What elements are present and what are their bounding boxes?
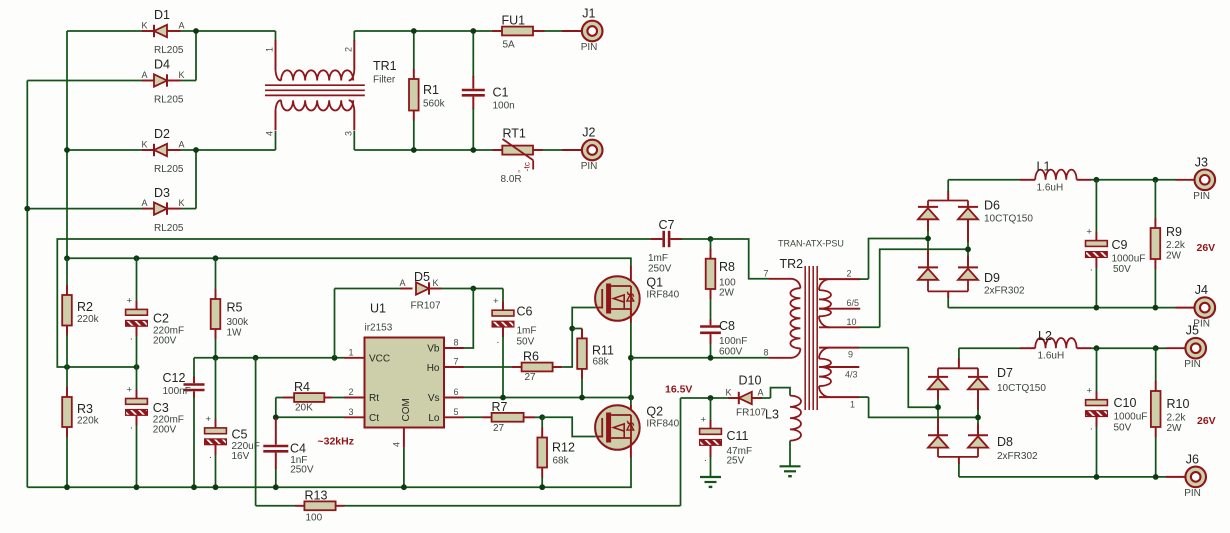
svg-text:C12: C12 xyxy=(163,371,186,385)
wire L1 row xyxy=(948,179,1020,181)
capacitor C2 xyxy=(126,258,185,367)
svg-text:R4: R4 xyxy=(294,380,310,394)
svg-text:COM: COM xyxy=(401,398,412,421)
wire R13 row xyxy=(256,505,296,507)
svg-text:1W: 1W xyxy=(227,328,243,339)
svg-text:R1: R1 xyxy=(423,83,439,97)
svg-text:L1: L1 xyxy=(1037,160,1051,174)
wire R4 corner to Ct row xyxy=(275,398,277,418)
diode pair D9 xyxy=(918,239,1025,297)
svg-text:R10: R10 xyxy=(1167,397,1190,411)
svg-text:2: 2 xyxy=(343,47,353,52)
connector J2 xyxy=(582,140,603,161)
svg-text:K: K xyxy=(142,21,148,31)
wire D3 row left xyxy=(27,208,142,210)
svg-text:PIN: PIN xyxy=(1193,191,1210,202)
resistor R6 xyxy=(512,350,563,384)
svg-text:.: . xyxy=(704,453,707,464)
svg-text:C9: C9 xyxy=(1112,238,1128,252)
svg-text:J2: J2 xyxy=(582,126,595,140)
svg-text:10CTQ150: 10CTQ150 xyxy=(997,383,1046,394)
svg-text:600V: 600V xyxy=(719,347,743,358)
svg-text:68k: 68k xyxy=(593,357,610,368)
svg-text:+: + xyxy=(1087,386,1093,397)
svg-text:16.5V: 16.5V xyxy=(665,383,692,395)
svg-text:TR1: TR1 xyxy=(373,59,397,73)
svg-text:5: 5 xyxy=(454,407,459,417)
node rail2 dots xyxy=(64,255,70,261)
svg-text:J5: J5 xyxy=(1186,324,1199,338)
svg-text:.: . xyxy=(497,335,500,346)
svg-text:R8: R8 xyxy=(719,260,735,274)
svg-text:6: 6 xyxy=(454,387,459,397)
svg-text:PIN: PIN xyxy=(581,42,598,53)
connector J1 xyxy=(582,21,603,42)
svg-text:R12: R12 xyxy=(552,441,575,455)
svg-text:R11: R11 xyxy=(592,344,614,358)
svg-text:K: K xyxy=(726,388,732,398)
capacitor C11 xyxy=(700,398,752,477)
resistor R8 xyxy=(706,239,736,320)
wire D10 to L3 jog xyxy=(771,388,791,398)
svg-text:Ho: Ho xyxy=(427,363,440,374)
node J4 row dots xyxy=(1094,305,1100,311)
svg-text:FU1: FU1 xyxy=(502,14,526,28)
wire top row D1 left xyxy=(67,30,143,32)
transformer TR2 xyxy=(764,239,844,411)
svg-text:+: + xyxy=(127,385,133,396)
svg-text:D5: D5 xyxy=(414,270,430,284)
svg-text:8: 8 xyxy=(454,338,459,348)
svg-text:Vb: Vb xyxy=(427,344,440,355)
svg-text:Q1: Q1 xyxy=(646,276,663,290)
wire HV rail1 big loop xyxy=(57,239,650,367)
capacitor C3 xyxy=(126,367,184,487)
capacitor C4 xyxy=(263,418,314,487)
svg-text:27: 27 xyxy=(525,372,537,383)
svg-text:Filter: Filter xyxy=(373,75,396,86)
svg-text:RL205: RL205 xyxy=(154,45,184,56)
svg-text:25V: 25V xyxy=(727,456,745,467)
svg-text:R9: R9 xyxy=(1166,225,1182,239)
svg-text:FR107: FR107 xyxy=(736,408,766,419)
resistor R1 xyxy=(409,31,446,150)
svg-text:1: 1 xyxy=(349,347,354,357)
svg-text:ir2153: ir2153 xyxy=(365,323,393,334)
wire rail2 to Q1 drain xyxy=(67,258,631,266)
svg-text:D7: D7 xyxy=(997,366,1013,380)
wire L2 to J5 xyxy=(1091,347,1167,349)
svg-text:.: . xyxy=(209,450,212,461)
svg-text:1mF: 1mF xyxy=(648,253,668,264)
svg-text:C8: C8 xyxy=(719,319,735,333)
svg-text:2: 2 xyxy=(349,387,354,397)
svg-text:1000uF: 1000uF xyxy=(1114,412,1148,423)
svg-text:8: 8 xyxy=(764,347,769,357)
diode D2 xyxy=(142,127,276,175)
transformer TR2 secondary bottom xyxy=(819,348,908,410)
svg-text:D6: D6 xyxy=(984,199,1000,213)
inductor L2 xyxy=(1020,329,1091,362)
transistor Q2 xyxy=(595,405,680,458)
svg-text:C1: C1 xyxy=(493,86,509,100)
svg-text:K: K xyxy=(179,198,185,208)
wire L2 row xyxy=(959,347,1021,349)
svg-text:A: A xyxy=(758,388,764,398)
wire bridge bottom output xyxy=(947,291,949,298)
diode D1 xyxy=(142,8,276,56)
svg-text:+: + xyxy=(1086,227,1092,238)
transistor Q1 xyxy=(595,266,680,323)
capacitor C5 xyxy=(205,358,260,487)
inductor L1 xyxy=(1020,160,1091,194)
wire VCC row xyxy=(194,357,344,359)
svg-text:C4: C4 xyxy=(290,442,306,456)
wire D2 row xyxy=(67,149,143,151)
node half-bridge mid dots xyxy=(628,355,634,361)
svg-text:1000uF: 1000uF xyxy=(1112,254,1146,265)
svg-text:R5: R5 xyxy=(227,301,243,315)
node L1 row dots xyxy=(1094,177,1100,183)
svg-text:J1: J1 xyxy=(582,7,595,21)
svg-text:250V: 250V xyxy=(290,465,314,476)
svg-text:.: . xyxy=(130,421,133,432)
wire COM to bottom rail xyxy=(403,448,405,488)
svg-text:J4: J4 xyxy=(1195,283,1208,297)
svg-text:2xFR302: 2xFR302 xyxy=(997,451,1038,462)
svg-text:4/3: 4/3 xyxy=(845,370,858,380)
svg-text:C5: C5 xyxy=(232,428,248,442)
svg-text:2W: 2W xyxy=(719,288,735,299)
resistor R11 xyxy=(577,329,614,398)
svg-text:9: 9 xyxy=(848,350,853,360)
wire Lo row to R7 xyxy=(464,416,483,418)
wire Vs to TR2 pin8 row xyxy=(631,357,769,359)
capacitor C12 xyxy=(163,358,205,487)
svg-text:5A: 5A xyxy=(503,40,516,51)
svg-text:1: 1 xyxy=(265,47,275,52)
diode D5 xyxy=(335,270,504,312)
svg-text:°: ° xyxy=(518,169,521,178)
node R1 junctions xyxy=(411,28,417,34)
svg-text:RL205: RL205 xyxy=(154,95,184,106)
svg-text:C7: C7 xyxy=(659,218,675,232)
svg-text:27: 27 xyxy=(493,423,505,434)
wire to TR2 pin7 xyxy=(711,239,770,279)
op-amp U1 ir2153 xyxy=(344,302,464,448)
wire pin10 to bridge xyxy=(880,249,968,327)
svg-text:+: + xyxy=(127,295,133,306)
wire Vb bootstrap vertical xyxy=(464,289,474,349)
wire Ho row to R6 xyxy=(464,366,512,368)
svg-text:220k: 220k xyxy=(77,314,100,325)
svg-text:D9: D9 xyxy=(984,271,1000,285)
wire J4 row xyxy=(948,307,1175,309)
svg-text:100: 100 xyxy=(306,512,323,523)
svg-text:R13: R13 xyxy=(305,488,328,502)
svg-text:A: A xyxy=(179,21,185,31)
connector J5 xyxy=(1185,338,1206,359)
wire R6 to Q1 gate xyxy=(562,308,596,368)
svg-text:C2: C2 xyxy=(153,312,169,326)
wire R13 feed vertical x255.6 xyxy=(255,358,257,506)
node L2 row dots xyxy=(1094,345,1100,351)
svg-text:100nF: 100nF xyxy=(163,386,191,397)
svg-text:-tc: -tc xyxy=(522,161,532,171)
svg-text:16V: 16V xyxy=(232,451,250,462)
svg-text:10CTQ150: 10CTQ150 xyxy=(984,213,1033,224)
transformer TR1 xyxy=(265,31,397,150)
svg-text:1: 1 xyxy=(850,399,855,409)
svg-text:D4: D4 xyxy=(154,58,170,72)
svg-text:50V: 50V xyxy=(517,337,535,348)
diode pair D7 xyxy=(928,366,1046,417)
svg-text:R2: R2 xyxy=(77,300,93,314)
wire Ct row xyxy=(276,416,344,418)
inductor L3 xyxy=(765,396,801,441)
svg-text:Lo: Lo xyxy=(428,413,440,424)
node bridge bottom dots xyxy=(935,404,941,410)
svg-text:D2: D2 xyxy=(154,127,170,141)
wire D4 row left xyxy=(27,80,142,82)
svg-text:A: A xyxy=(179,140,185,150)
node bridge top dots xyxy=(925,236,931,242)
svg-text:C3: C3 xyxy=(153,401,169,415)
diode D10 xyxy=(726,374,771,419)
svg-text:1mF: 1mF xyxy=(517,326,537,337)
node 16.5V dot xyxy=(708,395,714,401)
svg-text:+: + xyxy=(206,414,212,425)
svg-text:100n: 100n xyxy=(493,101,515,112)
svg-text:D10: D10 xyxy=(739,374,762,388)
wire R11 top tap xyxy=(572,328,582,330)
wire pin9 to bridge xyxy=(908,348,938,408)
svg-text:~32kHz: ~32kHz xyxy=(318,436,354,448)
connector J6 xyxy=(1185,467,1206,488)
node VCC row dots xyxy=(213,355,219,361)
wire R7 to Q2 gate xyxy=(542,417,596,436)
wire left rail x27 D4-D3-bottom xyxy=(26,81,28,488)
connector J4 xyxy=(1195,297,1216,318)
svg-text:Q2: Q2 xyxy=(646,405,663,419)
svg-text:D8: D8 xyxy=(997,435,1013,449)
wire bridge2 bottom output xyxy=(958,457,960,464)
svg-text:7: 7 xyxy=(764,268,769,278)
svg-text:L3: L3 xyxy=(765,408,779,422)
resistor R3 xyxy=(62,367,99,487)
svg-text:Vs: Vs xyxy=(428,393,440,404)
svg-text:PIN: PIN xyxy=(1184,488,1201,499)
svg-text:Ct: Ct xyxy=(369,413,379,424)
svg-text:20K: 20K xyxy=(295,403,313,414)
svg-text:J3: J3 xyxy=(1195,155,1208,169)
svg-text:+: + xyxy=(493,296,499,307)
svg-text:560k: 560k xyxy=(423,99,446,110)
wire left rail x67 D1-D2-R2 column top xyxy=(66,31,68,258)
svg-text:2.2k: 2.2k xyxy=(1166,240,1186,251)
svg-text:RL205: RL205 xyxy=(154,223,184,234)
svg-text:50V: 50V xyxy=(1113,264,1131,275)
capacitor C6 xyxy=(492,289,536,398)
wire L3 to ground xyxy=(789,441,791,467)
svg-text:L2: L2 xyxy=(1038,329,1052,343)
svg-text:R3: R3 xyxy=(77,402,93,416)
svg-text:A: A xyxy=(142,198,148,208)
resistor R5 xyxy=(211,258,249,358)
svg-text:2xFR302: 2xFR302 xyxy=(984,285,1025,296)
wire D2-D3 junction vertical x196 xyxy=(195,150,197,209)
node C7-R8 junction xyxy=(708,236,714,242)
wire bridge2 top output xyxy=(958,358,960,368)
svg-text:K: K xyxy=(179,70,185,80)
resistor R2 xyxy=(62,258,99,367)
svg-text:PIN: PIN xyxy=(581,161,598,172)
svg-text:TR2: TR2 xyxy=(780,257,804,271)
svg-text:4: 4 xyxy=(392,442,402,447)
svg-text:A: A xyxy=(400,278,406,288)
svg-text:RL205: RL205 xyxy=(154,164,184,175)
svg-text:4: 4 xyxy=(265,131,275,136)
wire J6 row xyxy=(959,476,1167,478)
svg-text:FR107: FR107 xyxy=(411,301,441,312)
svg-text:200V: 200V xyxy=(153,336,177,347)
svg-text:+: + xyxy=(701,415,707,426)
transformer TR2 secondary top xyxy=(819,269,880,328)
resistor R7 xyxy=(482,400,542,434)
svg-text:.: . xyxy=(130,331,133,342)
svg-text:26V: 26V xyxy=(1197,415,1216,427)
svg-text:C10: C10 xyxy=(1114,396,1137,410)
resistor R12 xyxy=(537,417,575,487)
thermistor RT1 xyxy=(493,127,583,186)
node D5-Vb junction xyxy=(470,286,476,292)
svg-text:R7: R7 xyxy=(492,400,508,414)
capacitor C10 xyxy=(1086,348,1148,477)
svg-text:1.6uH: 1.6uH xyxy=(1037,182,1064,193)
svg-text:100nF: 100nF xyxy=(719,336,747,347)
svg-text:C6: C6 xyxy=(517,305,533,319)
svg-text:PIN: PIN xyxy=(1184,359,1201,370)
resistor R10 xyxy=(1151,348,1190,477)
capacitor C7 xyxy=(648,218,711,275)
svg-text:IRF840: IRF840 xyxy=(646,290,679,301)
diode D3 xyxy=(142,186,197,234)
wire main bottom rail xyxy=(27,457,631,487)
wire 16.5V vertical xyxy=(680,398,682,506)
svg-text:IRF840: IRF840 xyxy=(646,419,679,430)
svg-text:U1: U1 xyxy=(370,302,386,316)
svg-text:3: 3 xyxy=(349,407,354,417)
svg-text:220k: 220k xyxy=(77,416,100,427)
wire Vs row xyxy=(464,397,632,399)
svg-text:68k: 68k xyxy=(553,456,570,467)
svg-text:Rt: Rt xyxy=(369,393,379,404)
node R7-R12 junction xyxy=(539,414,545,420)
wire D5 anode feed from VCC xyxy=(334,289,336,358)
wire D1-D4 junction vertical x196 xyxy=(195,31,197,81)
wire bridge top output xyxy=(947,191,949,201)
resistor R4 xyxy=(276,380,344,414)
svg-text:2W: 2W xyxy=(1167,423,1183,434)
svg-text:TRAN-ATX-PSU: TRAN-ATX-PSU xyxy=(778,239,844,249)
svg-text:RT1: RT1 xyxy=(503,127,526,141)
svg-text:.: . xyxy=(1090,263,1093,274)
capacitor C1 xyxy=(462,31,515,150)
wire 16.5V node xyxy=(681,397,728,399)
svg-text:50V: 50V xyxy=(1114,423,1132,434)
node midrow dots xyxy=(64,364,70,370)
svg-text:D3: D3 xyxy=(154,186,170,200)
diode pair D8 xyxy=(928,407,1038,462)
svg-text:10: 10 xyxy=(847,317,857,327)
node main rail dots xyxy=(64,484,70,490)
svg-text:26V: 26V xyxy=(1197,242,1216,254)
svg-text:250V: 250V xyxy=(648,264,672,275)
node Vs row dots xyxy=(500,395,506,401)
capacitor C8 xyxy=(700,319,747,358)
svg-text:.: . xyxy=(1090,422,1093,433)
svg-text:R6: R6 xyxy=(523,350,539,364)
resistor R9 xyxy=(1151,180,1186,308)
ground under L3 xyxy=(780,465,801,467)
node junction dots diode bridge xyxy=(193,28,199,34)
svg-text:200V: 200V xyxy=(153,425,177,436)
diode D4 xyxy=(142,58,197,106)
wire top rail TR1 to FU1 xyxy=(354,30,492,32)
wire pin1 to bridge xyxy=(869,397,978,417)
svg-text:J6: J6 xyxy=(1186,452,1199,466)
svg-text:K: K xyxy=(142,140,148,150)
svg-text:7: 7 xyxy=(454,357,459,367)
svg-text:300k: 300k xyxy=(227,317,250,328)
node J6 row dots xyxy=(1094,474,1100,480)
wire bottom rail TR1 to RT1 xyxy=(354,149,492,151)
node gate-R11 junction xyxy=(569,326,575,332)
svg-text:A: A xyxy=(142,70,148,80)
diode pair D6 xyxy=(918,199,1033,250)
svg-text:D1: D1 xyxy=(154,8,170,22)
svg-text:1.6uH: 1.6uH xyxy=(1038,351,1065,362)
node C1 junctions xyxy=(470,28,476,34)
ground under C11 xyxy=(700,476,721,478)
capacitor C9 xyxy=(1086,180,1146,308)
wire Q1 source to Q2 drain xyxy=(630,322,632,406)
wire pin2 to bridge xyxy=(869,239,929,280)
wire L1 to J3 xyxy=(1091,179,1176,181)
node pin8 row dots xyxy=(708,355,714,361)
svg-text:3: 3 xyxy=(343,131,353,136)
svg-text:2W: 2W xyxy=(1166,251,1182,262)
connector J3 xyxy=(1195,170,1216,191)
svg-text:6/5: 6/5 xyxy=(847,298,860,308)
svg-text:VCC: VCC xyxy=(369,354,390,365)
node Ct dot xyxy=(273,414,279,420)
svg-text:K: K xyxy=(433,278,439,288)
fuse FU1 xyxy=(492,14,582,51)
svg-text:C11: C11 xyxy=(727,429,749,443)
svg-text:2: 2 xyxy=(847,269,852,279)
resistor R13 xyxy=(295,488,681,523)
svg-text:2.2k: 2.2k xyxy=(1167,413,1187,424)
